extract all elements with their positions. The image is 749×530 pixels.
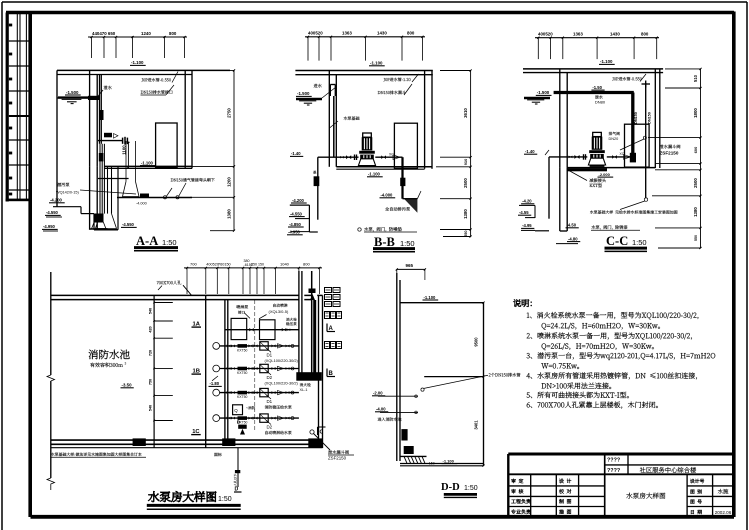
svg-text:XC: XC (620, 152, 625, 156)
svg-text:1240: 1240 (141, 31, 151, 36)
svg-text:ZSF2150: ZSF2150 (328, 455, 347, 460)
svg-text:-4.000: -4.000 (136, 202, 147, 206)
svg-text:B-B: B-B (374, 235, 395, 249)
svg-text:800: 800 (303, 261, 310, 266)
svg-text:-2.000: -2.000 (599, 172, 611, 177)
svg-text:600: 600 (693, 147, 698, 154)
svg-text:DN150: DN150 (648, 112, 652, 124)
svg-text:-1.500: -1.500 (297, 91, 310, 96)
svg-text:400520: 400520 (538, 32, 553, 37)
svg-text:-1.100: -1.100 (424, 295, 437, 300)
svg-text:-1.100: -1.100 (368, 172, 381, 177)
svg-text:510: 510 (693, 74, 698, 82)
svg-text:KXT50: KXT50 (237, 348, 247, 352)
svg-text:-1.100: -1.100 (443, 458, 455, 463)
svg-text:1363: 1363 (573, 32, 583, 37)
svg-text:1:50: 1:50 (400, 239, 415, 248)
svg-text:ZSF2150: ZSF2150 (660, 151, 679, 156)
svg-text:1:50: 1:50 (162, 238, 177, 247)
svg-text:540: 540 (149, 308, 153, 314)
svg-text:-4.550: -4.550 (122, 222, 135, 227)
svg-text:-4.00: -4.00 (376, 407, 386, 412)
svg-text:-4.95: -4.95 (522, 223, 532, 228)
svg-text:-4.200: -4.200 (292, 198, 305, 203)
svg-text:DN20: DN20 (609, 137, 619, 141)
svg-text:800: 800 (169, 31, 177, 36)
svg-text:3610: 3610 (463, 108, 468, 118)
svg-text:910: 910 (463, 159, 468, 166)
svg-text:D2: D2 (267, 375, 273, 380)
svg-text:XL-1: XL-1 (300, 388, 308, 392)
svg-text:2002.06: 2002.06 (715, 510, 732, 515)
svg-text:-4.000: -4.000 (381, 193, 394, 198)
svg-text:1:50: 1:50 (218, 496, 232, 503)
svg-text:540: 540 (149, 405, 153, 411)
svg-text:DN80: DN80 (595, 99, 606, 104)
svg-text:700: 700 (190, 261, 197, 266)
svg-text:-4.550: -4.550 (290, 211, 303, 216)
svg-text:DN150: DN150 (634, 112, 638, 124)
svg-text:-1.100: -1.100 (131, 60, 144, 65)
svg-text:-4.850: -4.850 (289, 222, 302, 227)
svg-text:C-C: C-C (606, 234, 628, 248)
svg-text:-1.100: -1.100 (141, 160, 154, 165)
svg-text:D1: D1 (267, 352, 273, 357)
svg-text:C: C (320, 430, 324, 436)
svg-text:550: 550 (694, 235, 698, 241)
svg-text:150: 150 (258, 262, 264, 266)
svg-text:-4.20: -4.20 (522, 199, 532, 204)
svg-text:1380: 1380 (227, 209, 232, 219)
svg-text:-2.00: -2.00 (373, 391, 383, 396)
svg-text:-3.50: -3.50 (122, 383, 133, 388)
svg-text:3: 3 (125, 362, 127, 366)
svg-text:760150: 760150 (218, 262, 231, 266)
svg-text:-4.80: -4.80 (568, 236, 578, 241)
svg-text:720: 720 (149, 350, 153, 356)
svg-text:KXT50: KXT50 (237, 371, 247, 375)
svg-text:750: 750 (149, 379, 153, 385)
svg-text:XC: XC (389, 152, 394, 156)
svg-text:(XQL100/220-30/2): (XQL100/220-30/2) (265, 381, 299, 386)
svg-text:2750: 2750 (227, 108, 232, 118)
svg-text:-1.40: -1.40 (525, 149, 535, 154)
svg-text:440470 650: 440470 650 (92, 31, 116, 36)
svg-text:1430: 1430 (377, 31, 387, 36)
svg-text:250: 250 (251, 262, 257, 266)
svg-text:420: 420 (149, 326, 153, 332)
svg-text:(XQL3/0-5): (XQL3/0-5) (269, 309, 289, 314)
svg-text:-1.500: -1.500 (66, 90, 79, 95)
svg-text:-1.100: -1.100 (600, 59, 613, 64)
svg-text:D-D: D-D (441, 482, 460, 493)
svg-text:D1: D1 (267, 399, 273, 404)
svg-text:(XQL100/220-30/2): (XQL100/220-30/2) (265, 358, 299, 363)
svg-text:1380: 1380 (463, 209, 468, 219)
svg-text:1:50: 1:50 (464, 485, 478, 492)
svg-text:-1.40: -1.40 (291, 151, 301, 156)
svg-text:1380: 1380 (693, 207, 698, 217)
svg-text:1200: 1200 (227, 177, 232, 187)
svg-text:1430: 1430 (610, 32, 620, 37)
svg-text:9500: 9500 (473, 337, 478, 347)
svg-text:Q: Q (234, 408, 238, 413)
svg-text:400520: 400520 (308, 31, 323, 36)
svg-text:D2: D2 (267, 425, 273, 430)
svg-text:3401: 3401 (473, 420, 478, 430)
svg-text:WQ142/0-15): WQ142/0-15) (56, 191, 80, 195)
svg-text:1800: 1800 (693, 108, 698, 118)
svg-text:-4.55: -4.55 (519, 210, 529, 215)
svg-text:1363: 1363 (342, 31, 352, 36)
svg-text:965: 965 (406, 263, 414, 268)
svg-text:-4.550: -4.550 (46, 210, 59, 215)
svg-text:1:50: 1:50 (632, 238, 647, 247)
svg-text:2500: 2500 (463, 178, 468, 188)
svg-text:KXT50: KXT50 (237, 395, 247, 399)
svg-text:150: 150 (429, 462, 435, 466)
svg-text:????: ???? (607, 458, 620, 464)
svg-text:550: 550 (464, 231, 468, 237)
svg-text:800: 800 (407, 31, 415, 36)
svg-text:-4.200: -4.200 (50, 198, 63, 203)
svg-text:A-A: A-A (136, 234, 158, 248)
svg-text:????: ???? (607, 468, 620, 474)
svg-text:-1.50: -1.50 (592, 85, 602, 90)
svg-text:-4.50: -4.50 (567, 223, 577, 228)
svg-text:-4.950: -4.950 (43, 224, 56, 229)
svg-text:800: 800 (641, 32, 649, 37)
svg-text:1040: 1040 (280, 261, 290, 266)
svg-text:-1.500: -1.500 (537, 90, 550, 95)
svg-text:2500: 2500 (693, 178, 698, 188)
svg-text:-1.100: -1.100 (370, 61, 383, 66)
svg-text:-1.80: -1.80 (210, 381, 220, 386)
